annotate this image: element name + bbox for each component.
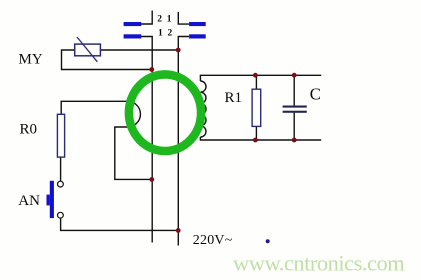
wire: varistor MY right lead to right mains line: [100, 49, 178, 51]
contact bar left 1 (blue): [124, 34, 142, 38]
resistor R1 body: [252, 89, 261, 126]
svg-text:R0: R0: [20, 122, 38, 138]
contact bar left 2 (blue): [124, 22, 142, 26]
wire: capacitor C leads: [293, 75, 295, 105]
wire: left mains vertical (from contact 1 down to 220V input): [141, 37, 152, 243]
wire: right mains vertical (from contact 2 down to 220V input): [178, 37, 189, 246]
svg-text:AN: AN: [18, 193, 40, 209]
pushbutton AN actuator bar: [50, 181, 54, 218]
svg-text:2 1: 2 1: [157, 15, 172, 25]
resistor R0 body: [57, 114, 64, 157]
wire: secondary top lead: [200, 75, 321, 81]
wire: R0 top lead to test loop: [61, 101, 127, 114]
svg-text:MY: MY: [19, 52, 43, 68]
capacitor C plate bottom: [283, 111, 307, 113]
capacitor C plate top: [283, 106, 307, 108]
node: AN rail / right mains: [176, 228, 181, 233]
wire: right contact stub (terminal 1 up): [178, 12, 189, 24]
svg-text:220V~: 220V~: [193, 233, 233, 248]
svg-text:1 2: 1 2: [158, 28, 173, 38]
stray blue dot: [266, 239, 270, 243]
node: top rail / R1: [253, 73, 258, 78]
svg-text:C: C: [310, 85, 321, 104]
contact bar right 1 (blue): [189, 22, 206, 26]
pushbutton AN terminal top: [58, 181, 64, 187]
wire: secondary bottom lead: [200, 137, 321, 140]
annotation: green highlight ring around CT: [129, 74, 201, 151]
varistor MY body: [75, 44, 101, 56]
pushbutton AN actuator nub: [47, 195, 50, 206]
wire: test loop return to left mains line: [115, 127, 152, 179]
coil: CT secondary winding turns: [200, 81, 206, 137]
node: test loop / left mains: [149, 177, 154, 182]
node: top rail / C: [292, 73, 297, 78]
wire: varistor MY left lead down to left mains line: [62, 50, 152, 70]
node: MY bottom / left mains: [149, 67, 154, 72]
node: MY top / right mains: [176, 48, 181, 53]
node: bottom rail / R1: [253, 138, 258, 143]
svg-text:www.cntronics.com: www.cntronics.com: [233, 251, 405, 276]
node: test loop semicircle around CT core: [128, 101, 141, 127]
svg-text:R1: R1: [225, 90, 243, 106]
wire: left contact stub (terminal 2 up): [141, 11, 152, 25]
contact bar right 2 (blue): [189, 34, 206, 38]
pushbutton AN terminal bottom: [58, 212, 64, 218]
node: bottom rail / C: [292, 138, 297, 143]
varistor MY diagonal: [77, 37, 97, 62]
wire: R1 leads: [255, 75, 257, 89]
wire: AN bottom to mains bottom rail: [61, 218, 179, 230]
wire: R0 bottom lead to AN button: [60, 157, 62, 181]
